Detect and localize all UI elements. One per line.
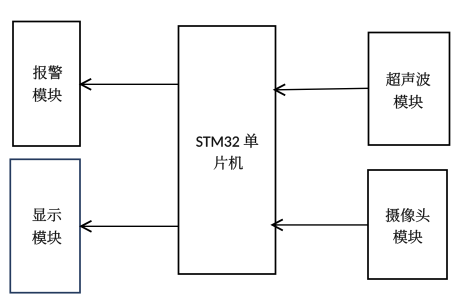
arrow MCU to alarm [81,79,179,90]
label alarm line1 [33,66,62,80]
label camera line2 [393,230,422,244]
box alarm-module [13,22,80,147]
box ultrasonic-module [369,33,450,146]
box display-module [10,159,80,292]
label alarm line2 [33,88,62,102]
label ultrasonic line1 [386,72,430,86]
arrow camera to MCU [272,219,368,230]
box STM32 MCU [179,26,276,274]
box camera-module [368,170,447,279]
arrow ultrasonic to MCU [275,84,369,95]
label MCU line2 [214,156,243,170]
arrow MCU to display [81,221,179,232]
label camera line1 [386,208,430,222]
label ultrasonic line2 [394,95,423,109]
label display line2 [32,231,61,245]
label MCU line1 [196,134,258,148]
label display line1 [33,208,62,221]
